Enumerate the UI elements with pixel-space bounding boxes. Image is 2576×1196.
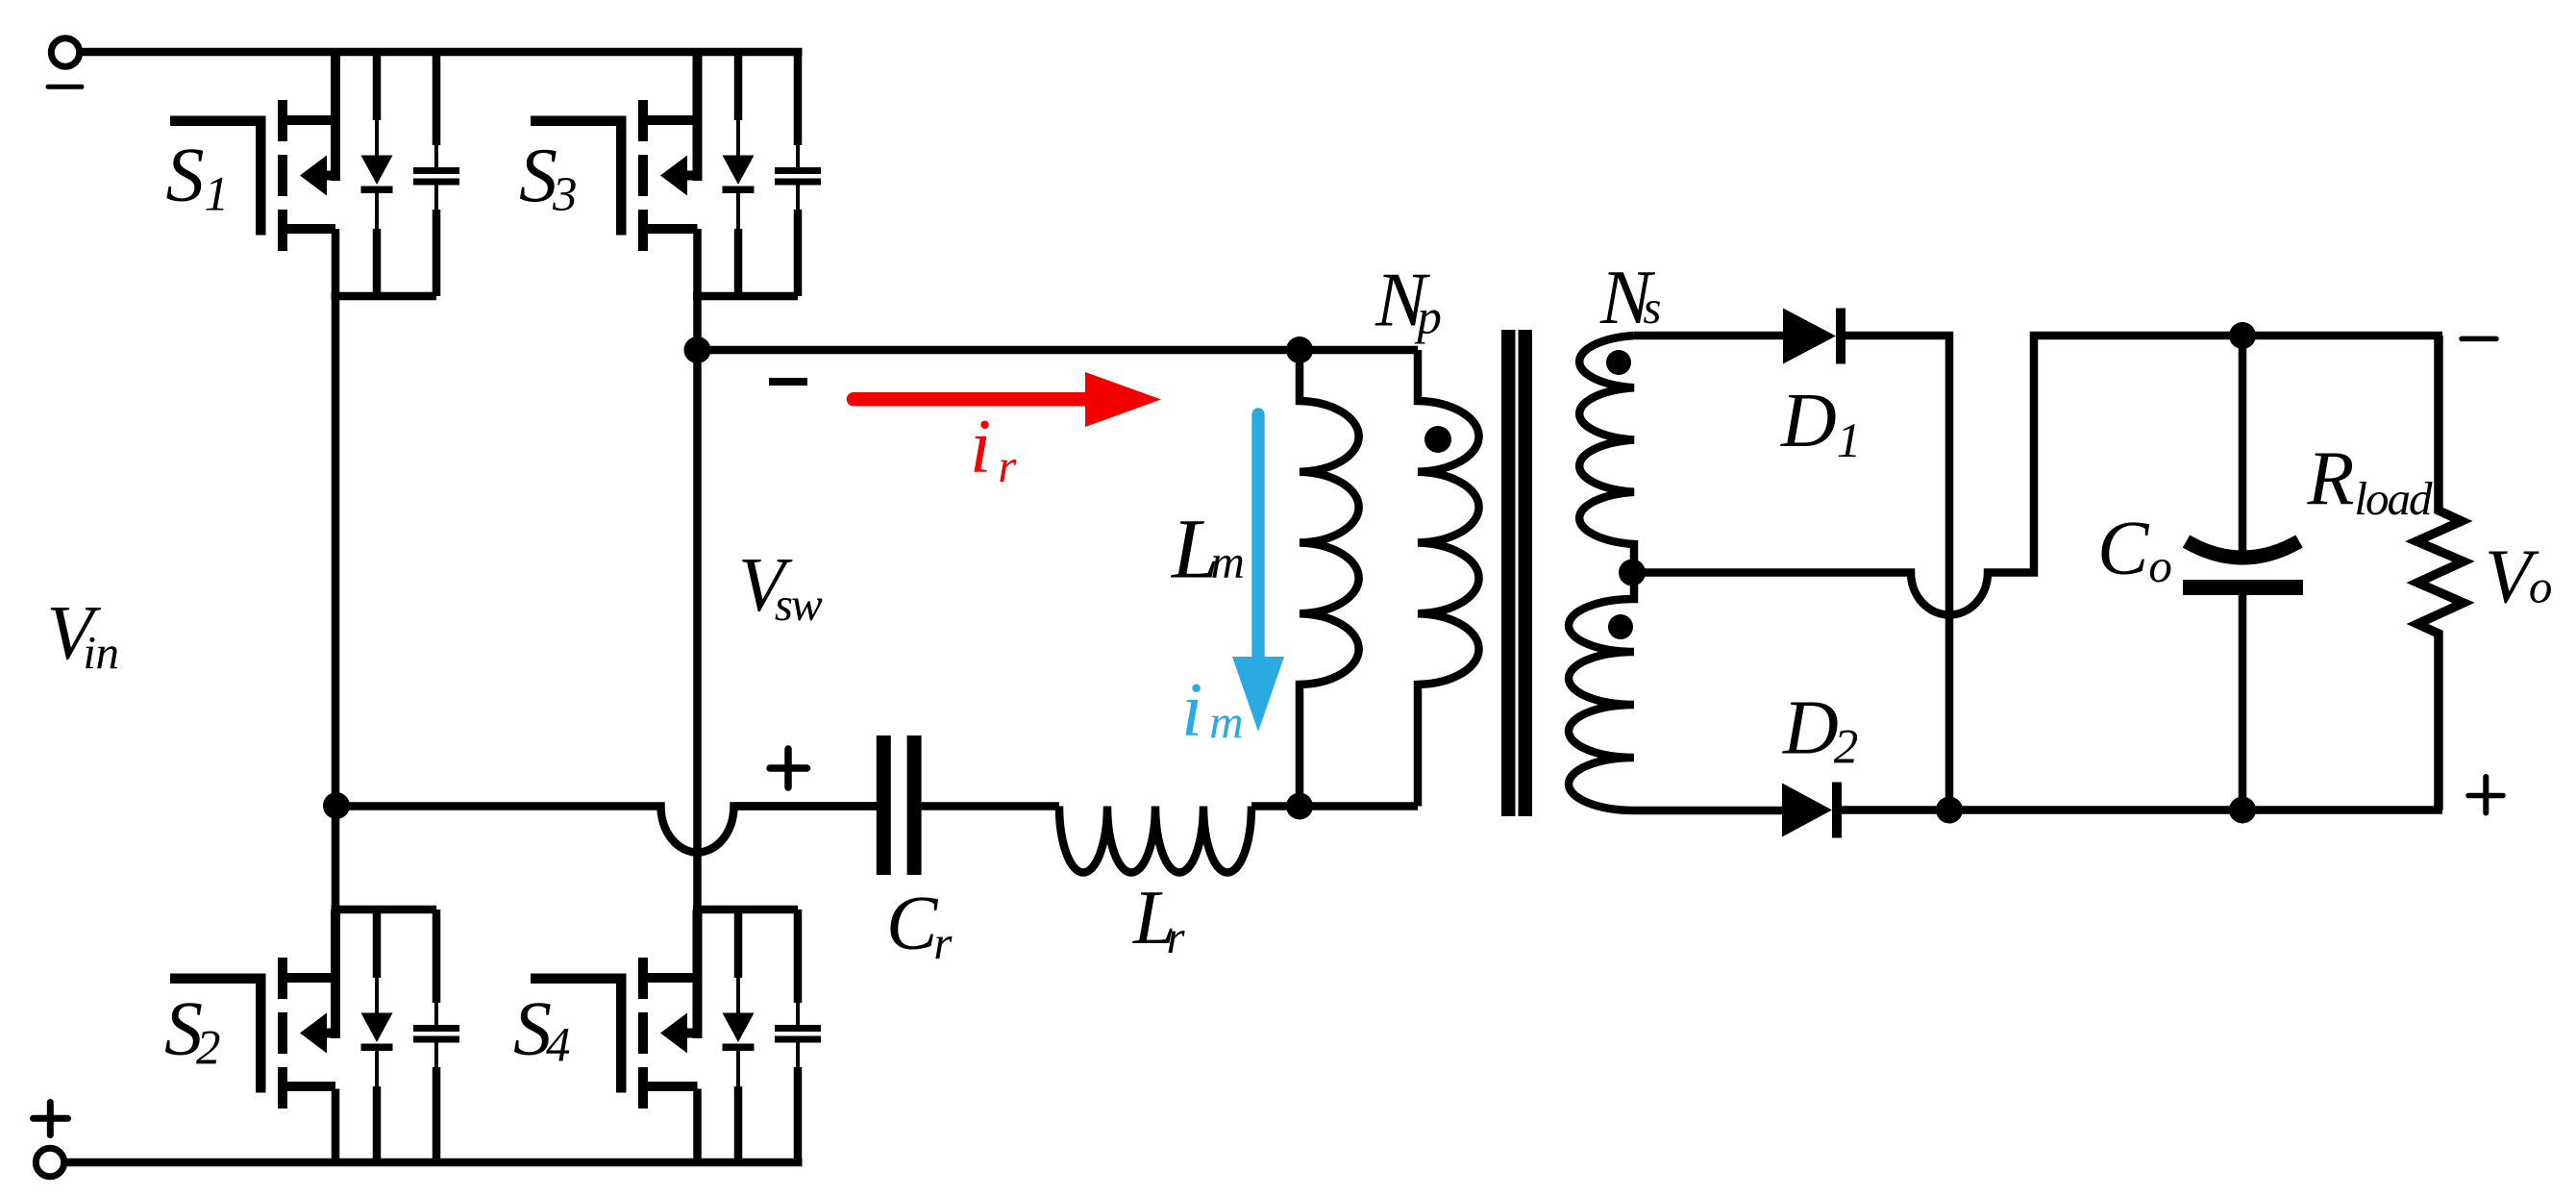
winding Np (transformer primary): [1418, 350, 1479, 807]
node: secondary lower phase dot: [1608, 614, 1633, 639]
transformer core: [1501, 330, 1532, 816]
node: Co top junction: [2229, 322, 2256, 349]
capacitor: S3 parallel capacitor: [775, 52, 821, 296]
node: primary phase dot: [1424, 426, 1451, 453]
label: Ns: [1599, 256, 1661, 340]
node: bridge midpoint A (S1/S2): [323, 792, 350, 819]
node: D1/D2 cathode junction: [1936, 797, 1963, 824]
wire: S2 source to bottom rail: [332, 1089, 340, 1163]
wire: right bridge leg vertical (S3 source to S4 drain): [693, 229, 702, 1036]
label: plus sign at Vin+ terminal: [34, 1103, 68, 1135]
label: im (blue): [1181, 668, 1244, 753]
capacitor: S4 parallel capacitor: [775, 909, 821, 1162]
label: Vo: [2485, 536, 2552, 620]
label: Vsw: [738, 543, 823, 631]
diode D2: [1782, 783, 1842, 838]
transistor S3 (MOSFET): [531, 52, 703, 251]
wire: primary bottom return: [1300, 802, 1418, 810]
label S4: [513, 987, 571, 1073]
capacitor Co (output): [2183, 336, 2303, 810]
label: Vin: [47, 591, 119, 679]
wire: Vsw node to transformer top rail: [698, 346, 1419, 355]
label S1: [166, 134, 230, 222]
node: secondary center tap: [1619, 560, 1646, 586]
transistor S2 (MOSFET): [170, 909, 340, 1109]
inductor Lr (resonant): [1059, 807, 1300, 873]
node: secondary upper phase dot: [1606, 350, 1631, 375]
label: D1: [1780, 379, 1861, 468]
wire: S4 cell top bar: [693, 906, 798, 914]
capacitor: S1 parallel capacitor: [413, 52, 459, 296]
wire: S3 cell bottom bar: [693, 292, 798, 301]
inductor Lm (magnetizing): [1300, 350, 1359, 807]
wire: secondary bottom to D2: [1634, 807, 1785, 815]
terminal: Vin negative input (top-left): [51, 38, 79, 66]
terminal: Vin positive input (bottom-left): [36, 1148, 63, 1176]
wire: S1 cell bottom bar: [332, 292, 437, 301]
arrow: resonant current ir (red): [854, 372, 1161, 427]
label: Co: [2097, 507, 2172, 592]
diode: S1 body diode: [361, 52, 393, 296]
wire: secondary top to D1: [1634, 332, 1786, 340]
diode: S4 body diode: [723, 909, 755, 1162]
winding Ns lower (secondary): [1569, 580, 1634, 810]
capacitor Cr (resonant): [734, 735, 1060, 875]
transistor S1 (MOSFET): [170, 52, 340, 251]
label: output plus sign: [2468, 777, 2503, 813]
wire: D1 cathode to output bottom rail: [1841, 336, 1949, 810]
wire: left bridge leg vertical (S1 source to S2 drain): [332, 229, 340, 1036]
label: Vsw plus sign: [770, 749, 807, 787]
label: minus sign at Vin- terminal: [48, 85, 82, 89]
label: Cr: [886, 882, 953, 969]
transistor S4 (MOSFET): [531, 909, 703, 1109]
label: output minus sign: [2462, 336, 2496, 342]
label: ir (red): [970, 405, 1017, 492]
resistor Rload: [2416, 336, 2464, 810]
label: Lm: [1170, 503, 1245, 597]
wire: S4 source to bottom rail: [693, 1089, 702, 1163]
wire: bottom input rail: [62, 1159, 803, 1167]
label: Vsw minus sign: [769, 378, 807, 386]
diode D1: [1783, 309, 1845, 364]
node: Lm bottom junction: [1286, 793, 1313, 820]
diode: S2 body diode: [361, 909, 393, 1162]
node: Co bottom junction: [2229, 797, 2256, 824]
winding Ns upper (secondary): [1579, 336, 1634, 565]
label S2: [164, 987, 221, 1076]
label: D2: [1782, 686, 1858, 775]
wire: bridge output bottom with hop over right leg: [336, 807, 877, 853]
label: Rload: [2307, 436, 2433, 525]
wire: top input rail: [77, 48, 803, 57]
label: Lr: [1132, 876, 1186, 963]
node: bridge midpoint B / Vsw top node: [684, 336, 711, 363]
node: Lm top junction: [1286, 336, 1313, 363]
wire: S2 cell top bar: [332, 906, 437, 914]
wire: bottom output rail: [1842, 806, 2442, 814]
arrow: magnetizing current im (blue): [1232, 414, 1284, 732]
label: Np: [1375, 259, 1442, 345]
capacitor: S2 parallel capacitor: [413, 909, 459, 1162]
diode: S3 body diode: [723, 52, 755, 296]
label S3: [519, 134, 578, 222]
wire: center tap with hop to top output rail: [1632, 336, 2442, 615]
